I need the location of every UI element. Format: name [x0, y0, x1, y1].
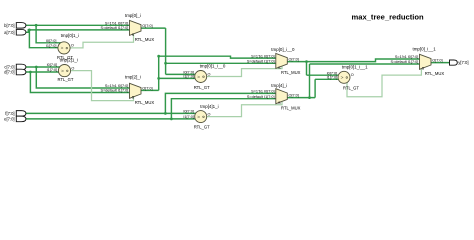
svg-text:I0[7:0]: I0[7:0]	[47, 63, 58, 67]
svg-text:O[7:0]: O[7:0]	[289, 58, 299, 62]
svg-text:O[7:0]: O[7:0]	[432, 59, 442, 63]
svg-text:>: >	[341, 75, 344, 81]
svg-text:RTL_MUX: RTL_MUX	[281, 105, 301, 110]
svg-text:I0[7:0]: I0[7:0]	[46, 39, 57, 43]
svg-text:O[7:0]: O[7:0]	[142, 24, 152, 28]
svg-text:tmp[0]1_i: tmp[0]1_i	[61, 33, 79, 38]
svg-text:tmp[0]_i__0: tmp[0]_i__0	[271, 47, 295, 52]
svg-text:tmp[0]1_i__1: tmp[0]1_i__1	[342, 65, 368, 70]
svg-text:tmp[0]_i: tmp[0]_i	[125, 13, 141, 18]
svg-text:RTL_MUX: RTL_MUX	[425, 71, 445, 76]
svg-text:RTL_GT: RTL_GT	[343, 85, 359, 90]
svg-text:O: O	[71, 44, 74, 48]
svg-text:O[7:0]: O[7:0]	[289, 94, 299, 98]
svg-text:O: O	[208, 112, 211, 116]
svg-text:RTL_MUX: RTL_MUX	[281, 70, 301, 75]
svg-text:O[7:0]: O[7:0]	[142, 87, 152, 91]
svg-text:RTL_GT: RTL_GT	[58, 77, 74, 82]
svg-text:RTL_MUX: RTL_MUX	[135, 100, 155, 105]
svg-text:e[7:0]: e[7:0]	[4, 116, 14, 121]
svg-text:S=1'b1 I0[7:0]: S=1'b1 I0[7:0]	[251, 90, 274, 94]
svg-text:tmp[0]1_i__0: tmp[0]1_i__0	[200, 63, 226, 68]
svg-text:RTL_GT: RTL_GT	[194, 125, 210, 130]
svg-text:y[7:0]: y[7:0]	[458, 60, 468, 65]
svg-text:I1[7:0]: I1[7:0]	[46, 44, 57, 48]
svg-text:RTL_MUX: RTL_MUX	[135, 37, 155, 42]
svg-text:b[7:0]: b[7:0]	[4, 23, 14, 28]
svg-text:S=1'b1 I0[7:0]: S=1'b1 I0[7:0]	[105, 22, 128, 26]
svg-text:>: >	[197, 74, 200, 80]
svg-text:>: >	[197, 114, 200, 120]
svg-text:I1[7:0]: I1[7:0]	[327, 76, 338, 80]
svg-text:O: O	[351, 73, 354, 77]
svg-text:max_tree_reduction: max_tree_reduction	[352, 13, 425, 22]
svg-text:I1[7:0]: I1[7:0]	[47, 68, 58, 72]
svg-text:tmp[2]_i: tmp[2]_i	[125, 75, 141, 80]
svg-text:S=default I1[7:0]: S=default I1[7:0]	[247, 60, 275, 64]
svg-text:tmp[4]_i: tmp[4]_i	[271, 83, 287, 88]
svg-text:O: O	[71, 66, 74, 70]
svg-text:S=default I1[7:0]: S=default I1[7:0]	[101, 26, 129, 30]
svg-text:O: O	[208, 72, 211, 76]
svg-text:RTL_GT: RTL_GT	[194, 85, 210, 90]
svg-text:I0[7:0]: I0[7:0]	[183, 110, 194, 114]
svg-text:S=1'b1 I0[7:0]: S=1'b1 I0[7:0]	[105, 84, 128, 88]
svg-text:f[7:0]: f[7:0]	[5, 111, 14, 116]
svg-text:a[7:0]: a[7:0]	[4, 30, 14, 35]
svg-text:tmp[0]_i__1: tmp[0]_i__1	[413, 47, 437, 52]
svg-text:S=default I1[7:0]: S=default I1[7:0]	[247, 95, 275, 99]
svg-text:S=1'b1 I0[7:0]: S=1'b1 I0[7:0]	[251, 54, 274, 58]
svg-text:S=default I1[7:0]: S=default I1[7:0]	[391, 60, 419, 64]
svg-text:I1[7:0]: I1[7:0]	[183, 75, 194, 79]
svg-text:S=default I1[7:0]: S=default I1[7:0]	[101, 89, 129, 93]
svg-text:I1[7:0]: I1[7:0]	[183, 115, 194, 119]
svg-text:tmp[4]1_i: tmp[4]1_i	[200, 104, 218, 109]
svg-text:S=1'b1 I0[7:0]: S=1'b1 I0[7:0]	[395, 55, 418, 59]
svg-text:tmp[2]1_i: tmp[2]1_i	[60, 58, 78, 63]
svg-text:d[7:0]: d[7:0]	[4, 70, 14, 75]
svg-text:>: >	[61, 46, 64, 52]
svg-text:>: >	[61, 68, 64, 74]
